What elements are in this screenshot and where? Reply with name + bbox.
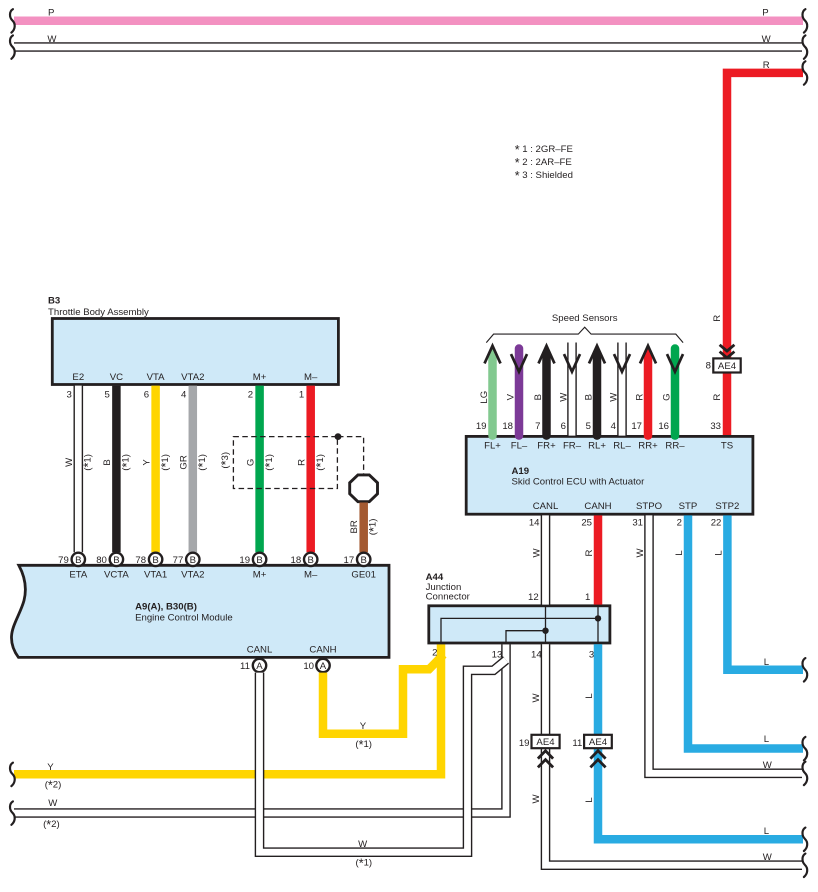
svg-text:4: 4: [181, 389, 187, 400]
svg-text:(*1): (*1): [120, 454, 134, 471]
svg-text:FL+: FL+: [484, 441, 501, 452]
svg-text:13: 13: [492, 649, 503, 660]
svg-text:FR+: FR+: [537, 441, 556, 452]
svg-text:CANL: CANL: [533, 501, 559, 512]
node dot CANH bus: [595, 615, 601, 621]
svg-text:LG: LG: [479, 391, 490, 404]
svg-text:3: 3: [589, 649, 594, 660]
svg-text:B: B: [190, 555, 196, 566]
svg-text:VCTA: VCTA: [104, 570, 129, 581]
shield drain dashed line: [338, 437, 364, 474]
wire L STP to right edge: [688, 515, 803, 748]
wire R TS chevrons into AE4: [720, 345, 735, 351]
svg-text:Speed Sensors: Speed Sensors: [552, 313, 618, 324]
wire L A44 pin 3 to AE4 pin 11 and right edge: [598, 644, 803, 839]
svg-text:11: 11: [240, 661, 250, 672]
svg-text:M–: M–: [304, 372, 318, 383]
svg-text:W: W: [762, 34, 772, 45]
svg-text:10: 10: [303, 661, 314, 672]
svg-text:22: 22: [711, 518, 722, 529]
svg-text:(*1): (*1): [355, 857, 372, 871]
svg-text:R: R: [763, 60, 770, 71]
svg-text:A: A: [320, 661, 327, 672]
svg-text:3: 3: [66, 389, 71, 400]
module A9(A)/B30(B) Engine Control Module: [11, 565, 389, 657]
svg-text:1: 1: [299, 389, 304, 400]
svg-text:2: 2: [677, 518, 682, 529]
svg-text:A9(A), B30(B): A9(A), B30(B): [135, 602, 197, 613]
wire L STP2 to right edge: [727, 515, 803, 669]
svg-text:17: 17: [344, 555, 355, 566]
bus bar pin1-pin3 inside A44: [597, 606, 599, 643]
svg-text:31: 31: [632, 518, 643, 529]
svg-text:Y: Y: [47, 762, 54, 773]
svg-text:RL–: RL–: [613, 441, 631, 452]
svg-text:STP2: STP2: [715, 501, 739, 512]
svg-text:(*1): (*1): [355, 738, 372, 752]
svg-text:B: B: [307, 555, 313, 566]
svg-text:(*1): (*1): [314, 454, 328, 471]
svg-text:33: 33: [710, 421, 721, 432]
svg-text:VC: VC: [110, 372, 123, 383]
svg-text:RL+: RL+: [588, 441, 606, 452]
svg-text:80: 80: [96, 555, 107, 566]
svg-text:1: 1: [585, 592, 590, 603]
wire Y (*2) from left edge to A44 pin 2: [14, 644, 441, 774]
svg-text:P: P: [762, 8, 768, 19]
wire W A44 pin 14 to AE4 pin 19 and right edge: [546, 644, 803, 865]
svg-text:L: L: [764, 826, 770, 837]
svg-text:17: 17: [631, 421, 642, 432]
svg-text:(*1): (*1): [367, 519, 381, 536]
svg-text:12: 12: [528, 592, 539, 603]
svg-text:FR–: FR–: [563, 441, 582, 452]
speed sensors brace: [486, 327, 683, 342]
wire W STPO to right edge: [649, 515, 802, 773]
wire R CANH A19 to A44 pin 1: [594, 515, 603, 604]
wire W (*2) from left edge to A44 pin 13: [14, 644, 506, 813]
svg-text:L: L: [674, 550, 685, 556]
svg-text:19: 19: [476, 421, 487, 432]
svg-text:R: R: [635, 394, 646, 401]
svg-text:CANH: CANH: [309, 644, 336, 655]
svg-text:RR–: RR–: [665, 441, 685, 452]
svg-text:CANL: CANL: [247, 644, 273, 655]
svg-text:19: 19: [239, 555, 250, 566]
svg-text:B: B: [113, 555, 119, 566]
svg-text:79: 79: [58, 555, 69, 566]
svg-text:W: W: [763, 852, 773, 863]
svg-text:(*3): (*3): [219, 452, 233, 469]
svg-text:Throttle Body Assembly: Throttle Body Assembly: [48, 307, 149, 318]
svg-text:VTA1: VTA1: [144, 570, 167, 581]
svg-text:B: B: [533, 394, 544, 400]
svg-text:B3: B3: [48, 296, 60, 307]
svg-text:AE4: AE4: [589, 737, 608, 748]
svg-text:GE01: GE01: [351, 570, 376, 581]
svg-text:W: W: [531, 693, 542, 703]
svg-text:B: B: [75, 555, 81, 566]
svg-text:(*1): (*1): [159, 454, 173, 471]
svg-text:V: V: [506, 393, 517, 400]
svg-text:L: L: [584, 693, 595, 699]
wire RL+ speed sensor pin 5: [593, 353, 602, 435]
svg-text:B: B: [152, 555, 158, 566]
svg-text:A19: A19: [512, 466, 530, 477]
module A19 Skid Control ECU with Actuator: [466, 436, 753, 514]
svg-text:Connector: Connector: [426, 591, 471, 602]
svg-text:8: 8: [706, 361, 711, 372]
svg-text:W: W: [559, 392, 570, 402]
svg-text:6: 6: [561, 421, 566, 432]
svg-text:R: R: [584, 549, 595, 556]
svg-text:* 1 : 2GR–FE: * 1 : 2GR–FE: [515, 143, 573, 157]
shield ground octagon symbol: [350, 475, 378, 502]
svg-text:G: G: [245, 459, 256, 466]
svg-text:2: 2: [248, 389, 253, 400]
wire RR– speed sensor pin 16: [671, 349, 680, 436]
connector AE4 (top, pin 8): [713, 358, 740, 372]
svg-text:M+: M+: [253, 570, 267, 581]
svg-text:B: B: [256, 555, 262, 566]
svg-text:STPO: STPO: [636, 501, 662, 512]
svg-text:Y: Y: [360, 721, 367, 732]
wire FR– speed sensor pin 6: [567, 343, 577, 436]
bus bar pin2-to-pin1/3 inside A44: [441, 618, 598, 643]
svg-text:25: 25: [581, 518, 592, 529]
svg-text:L: L: [764, 734, 770, 745]
svg-text:L: L: [713, 550, 724, 556]
svg-text:R: R: [296, 459, 307, 466]
bus bar pin12-pin14 inside A44: [545, 606, 547, 643]
bus bar pin13-to-pin12/14 inside A44: [506, 631, 546, 643]
svg-text:GR: GR: [179, 455, 190, 469]
svg-text:18: 18: [502, 421, 513, 432]
node dot CANL bus: [542, 628, 548, 634]
svg-text:B: B: [102, 459, 113, 465]
svg-text:G: G: [662, 393, 673, 400]
svg-text:6: 6: [144, 389, 149, 400]
svg-text:18: 18: [291, 555, 302, 566]
svg-text:2: 2: [432, 648, 437, 659]
svg-text:M–: M–: [304, 570, 318, 581]
svg-text:STP: STP: [679, 501, 698, 512]
svg-text:(*1): (*1): [82, 454, 96, 471]
node shield junction dot: [335, 433, 342, 440]
svg-text:5: 5: [105, 389, 110, 400]
svg-text:16: 16: [658, 421, 669, 432]
svg-text:(*1): (*1): [196, 454, 210, 471]
svg-text:W: W: [358, 839, 368, 850]
svg-text:(*2): (*2): [45, 779, 62, 793]
wire R (red, from right edge to TS): [727, 73, 803, 436]
svg-text:L: L: [584, 797, 595, 803]
svg-text:78: 78: [135, 555, 146, 566]
svg-text:* 2 : 2AR–FE: * 2 : 2AR–FE: [515, 156, 572, 170]
svg-text:W: W: [763, 760, 773, 771]
svg-text:77: 77: [173, 555, 184, 566]
svg-text:4: 4: [611, 421, 617, 432]
svg-text:W: W: [609, 392, 620, 402]
svg-text:BR: BR: [349, 520, 360, 533]
wire FR+ speed sensor pin 7: [542, 353, 551, 435]
svg-text:VTA: VTA: [147, 372, 166, 383]
wire RR+ speed sensor pin 17: [644, 353, 653, 435]
svg-text:W: W: [47, 34, 57, 45]
svg-text:AE4: AE4: [718, 361, 737, 372]
svg-text:R: R: [712, 315, 723, 322]
svg-text:P: P: [48, 8, 54, 19]
svg-text:19: 19: [519, 738, 530, 749]
svg-text:A: A: [256, 661, 263, 672]
svg-text:W: W: [531, 794, 542, 804]
svg-text:Y: Y: [141, 459, 152, 466]
connector AE4 (pin 11): [584, 735, 612, 748]
svg-text:B: B: [360, 555, 366, 566]
svg-text:M+: M+: [253, 372, 267, 383]
svg-text:W: W: [532, 548, 543, 558]
svg-text:5: 5: [586, 421, 591, 432]
wire RL– speed sensor pin 4: [617, 343, 627, 436]
svg-text:FL–: FL–: [511, 441, 528, 452]
svg-text:W: W: [635, 548, 646, 558]
wire Y CANH (*1) ECM to A44 junction: [323, 655, 444, 734]
svg-text:W: W: [64, 457, 75, 467]
svg-text:AE4: AE4: [536, 737, 555, 748]
svg-text:11: 11: [572, 738, 582, 749]
svg-text:7: 7: [535, 421, 540, 432]
svg-text:CANH: CANH: [584, 501, 611, 512]
svg-text:ETA: ETA: [69, 570, 88, 581]
connector AE4 (pin 19): [532, 735, 560, 748]
svg-text:B: B: [584, 394, 595, 400]
wire BR shield drain to GE01: [359, 503, 368, 553]
svg-text:14: 14: [529, 518, 540, 529]
wire W CANL (*1) ECM to A44 junction: [260, 660, 507, 852]
wire FL+ speed sensor pin 19: [488, 353, 497, 435]
svg-text:(*2): (*2): [43, 818, 60, 832]
svg-text:R: R: [712, 394, 723, 401]
wire FL– speed sensor pin 18: [515, 349, 524, 436]
svg-text:W: W: [48, 798, 58, 809]
svg-text:(*1): (*1): [263, 454, 277, 471]
wire P (pink, top): [14, 17, 803, 26]
wire W CANL A19 to A44 pin 12: [541, 515, 551, 604]
svg-text:Skid Control ECU with Actuator: Skid Control ECU with Actuator: [512, 477, 646, 488]
svg-text:Engine Control Module: Engine Control Module: [135, 613, 233, 624]
svg-text:TS: TS: [721, 441, 733, 452]
wire W (white, top): [14, 42, 802, 52]
svg-text:RR+: RR+: [638, 441, 658, 452]
svg-text:L: L: [764, 657, 770, 668]
svg-text:14: 14: [531, 649, 542, 660]
svg-text:E2: E2: [72, 372, 84, 383]
svg-text:VTA2: VTA2: [181, 570, 204, 581]
svg-text:VTA2: VTA2: [181, 372, 204, 383]
svg-text:* 3 : Shielded: * 3 : Shielded: [515, 169, 573, 183]
